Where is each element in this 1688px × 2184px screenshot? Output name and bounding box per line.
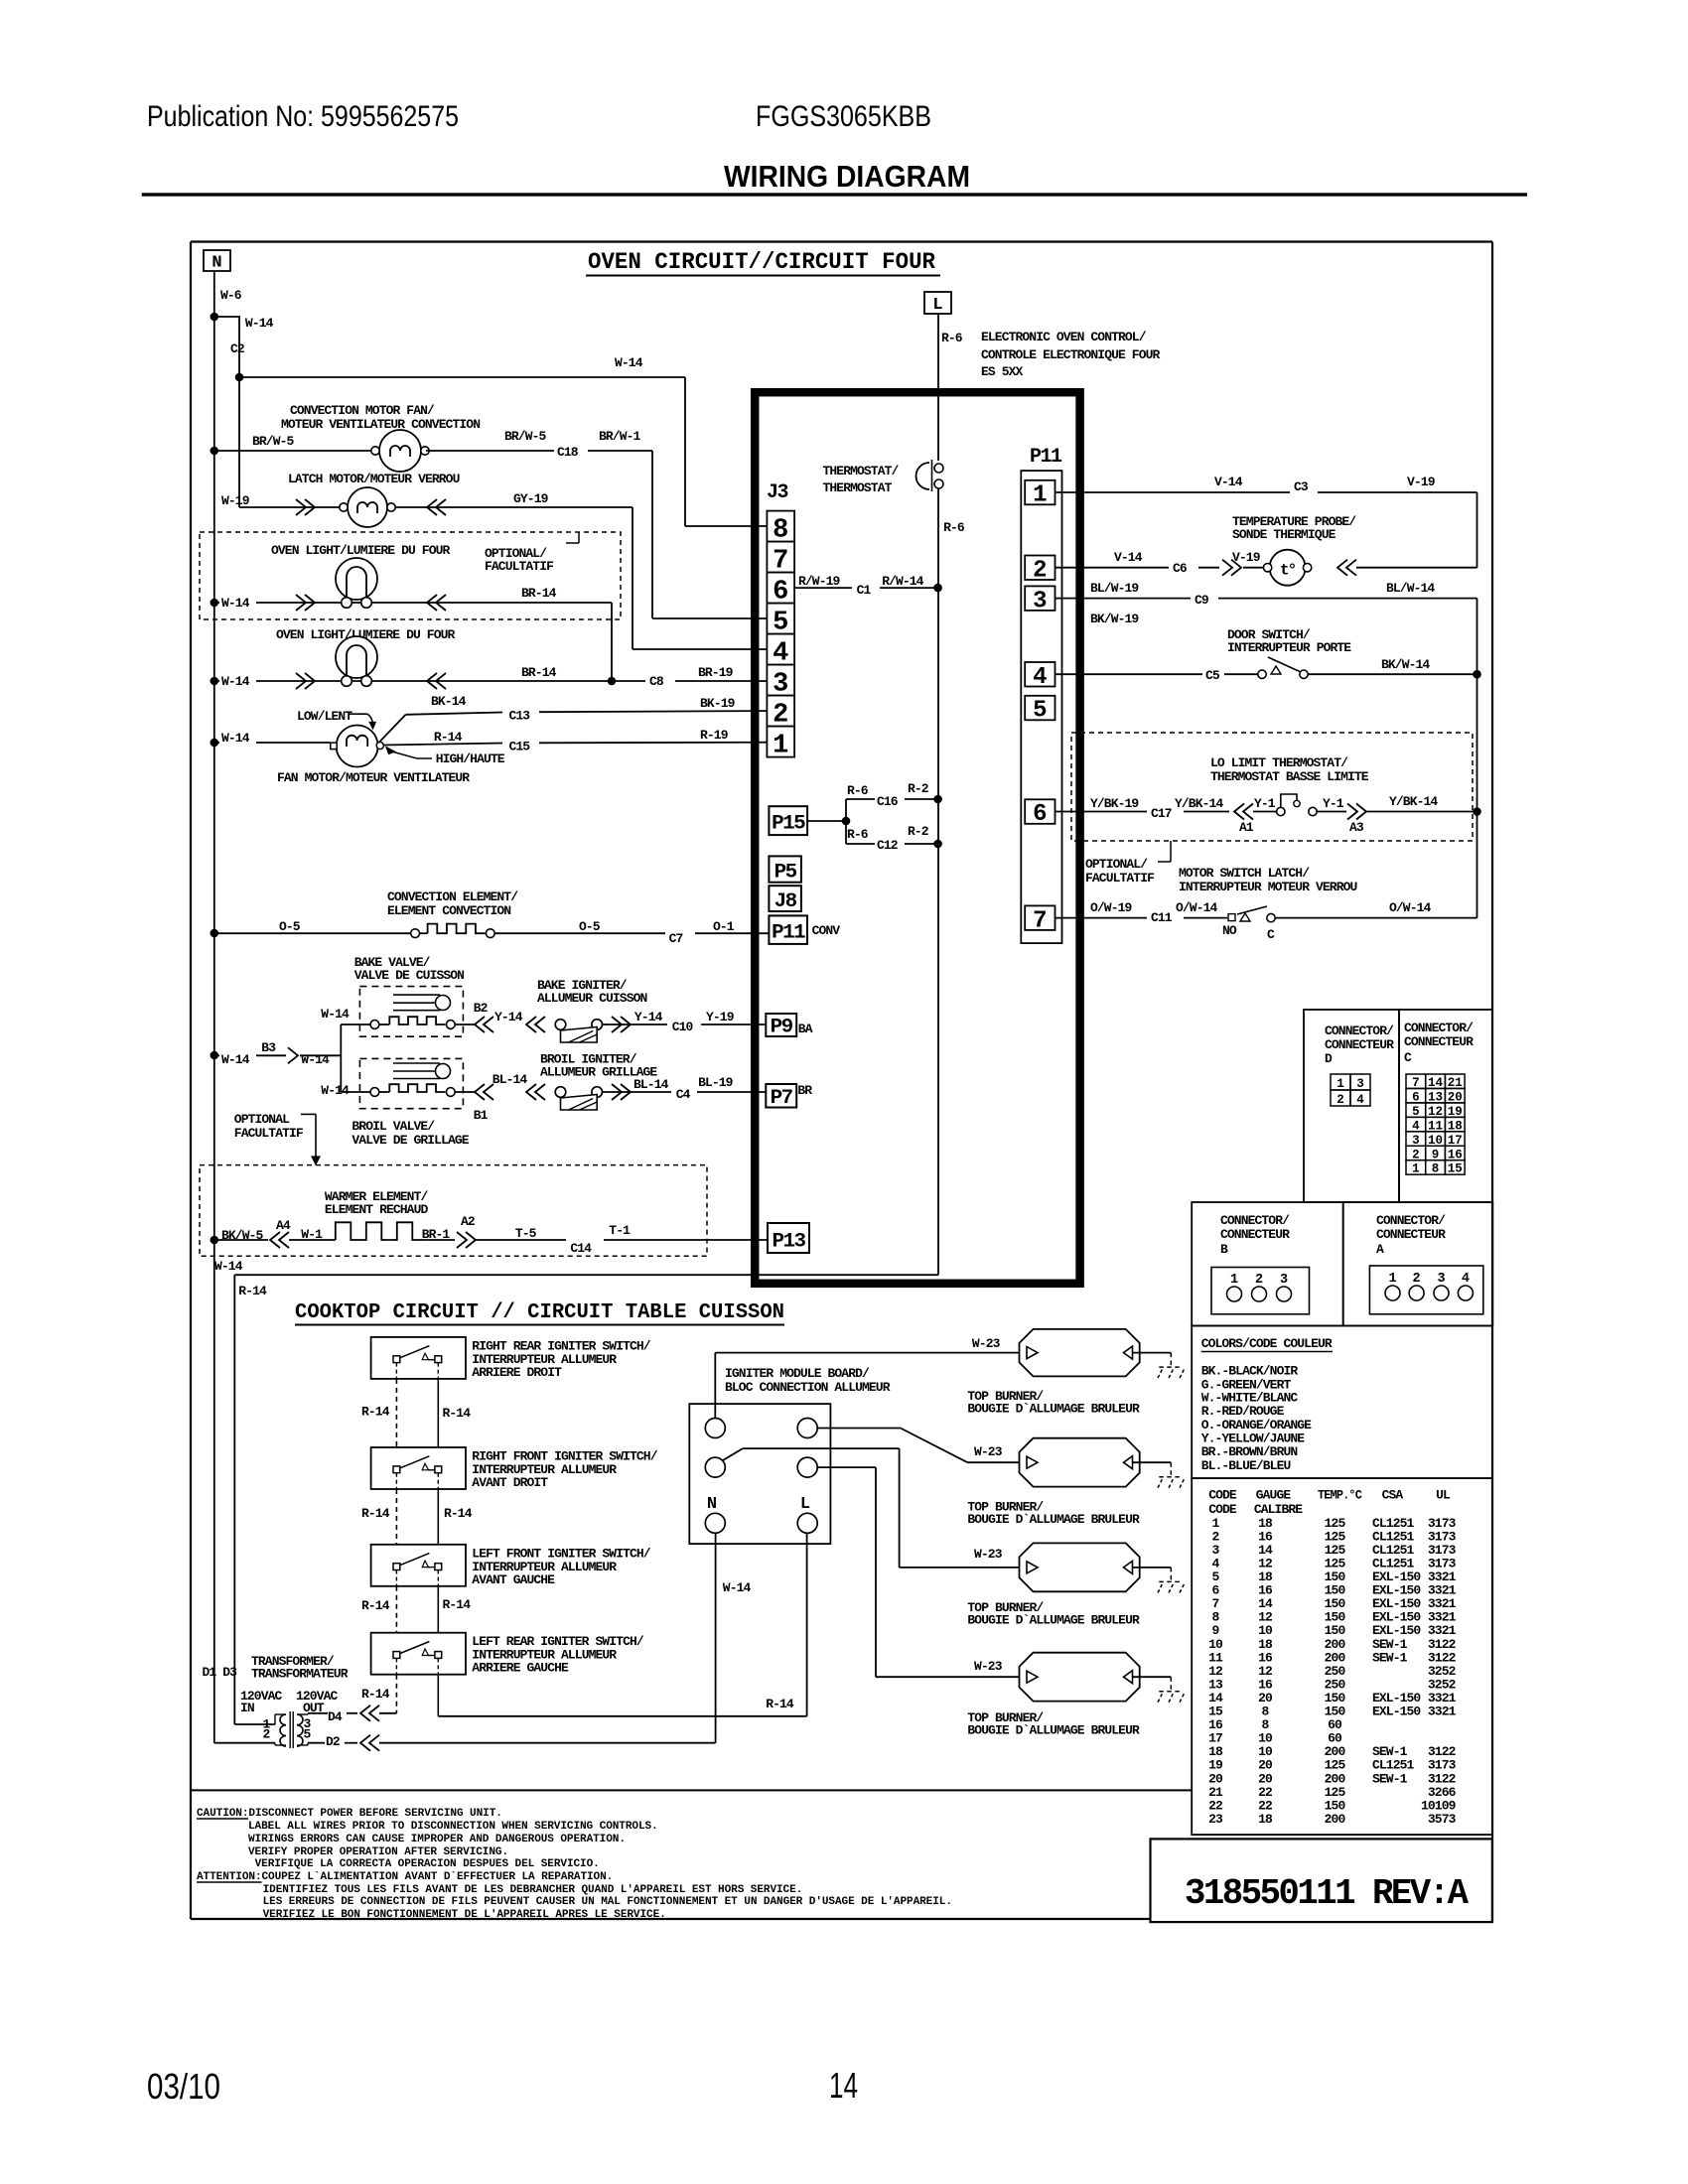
svg-text:C13: C13 [509, 709, 531, 724]
svg-text:ALLUMEUR GRILLAGE: ALLUMEUR GRILLAGE [540, 1065, 657, 1080]
svg-text:W-14: W-14 [321, 1083, 350, 1098]
svg-text:C10: C10 [672, 1020, 694, 1034]
svg-text:O-5: O-5 [579, 919, 601, 934]
svg-text:Y-19: Y-19 [706, 1010, 735, 1024]
svg-text:BK-14: BK-14 [431, 694, 467, 709]
svg-text:R-14: R-14 [361, 1687, 390, 1702]
svg-text:CONNECTOR/: CONNECTOR/ [1325, 1024, 1394, 1038]
svg-text:BA: BA [798, 1022, 813, 1036]
svg-text:W-1: W-1 [301, 1227, 323, 1242]
svg-text:2: 2 [1033, 557, 1047, 584]
svg-text:CODE: CODE [1208, 1488, 1237, 1503]
svg-text:LOW/LENT: LOW/LENT [297, 709, 352, 724]
svg-text:R/W-14: R/W-14 [882, 574, 923, 589]
svg-text:O-1: O-1 [713, 919, 735, 934]
svg-text:W-14: W-14 [221, 674, 250, 689]
svg-text:C2: C2 [230, 341, 245, 356]
svg-text:D1 D3: D1 D3 [203, 1665, 238, 1680]
svg-text:4: 4 [1033, 664, 1047, 691]
svg-text:15: 15 [1448, 1162, 1463, 1176]
svg-text:B1: B1 [474, 1108, 489, 1123]
svg-text:R-14: R-14 [361, 1598, 390, 1613]
svg-text:V-14: V-14 [1114, 550, 1143, 565]
svg-text:LABEL ALL WIRES PRIOR TO DISCO: LABEL ALL WIRES PRIOR TO DISCONNECTION W… [248, 1821, 658, 1833]
svg-text:3: 3 [1033, 588, 1047, 614]
svg-text:8: 8 [1432, 1162, 1440, 1176]
svg-text:C11: C11 [1151, 910, 1173, 925]
svg-text:CODE: CODE [1208, 1502, 1237, 1517]
svg-text:D2: D2 [326, 1734, 341, 1749]
svg-text:IN: IN [240, 1701, 254, 1715]
svg-text:Y/BK-14: Y/BK-14 [1389, 794, 1438, 809]
svg-text:C15: C15 [509, 740, 531, 754]
svg-text:14: 14 [829, 2065, 858, 2106]
svg-text:OPTIONAL/: OPTIONAL/ [1085, 857, 1148, 872]
svg-text:C17: C17 [1151, 806, 1172, 821]
svg-text:O/W-14: O/W-14 [1176, 900, 1217, 915]
svg-text:INTERRUPTEUR MOTEUR VERROU: INTERRUPTEUR MOTEUR VERROU [1179, 880, 1356, 894]
svg-text:BOUGIE D`ALLUMAGE BRULEUR: BOUGIE D`ALLUMAGE BRULEUR [967, 1613, 1140, 1628]
svg-text:ELEMENT RECHAUD: ELEMENT RECHAUD [325, 1202, 429, 1217]
svg-text:C8: C8 [649, 674, 664, 689]
svg-text:OPTIONAL: OPTIONAL [234, 1112, 290, 1127]
svg-text:B: B [1220, 1242, 1228, 1257]
svg-text:LO LIMIT THERMOSTAT/: LO LIMIT THERMOSTAT/ [1210, 755, 1348, 770]
svg-text:A: A [1376, 1242, 1384, 1257]
svg-text:BOUGIE D`ALLUMAGE BRULEUR: BOUGIE D`ALLUMAGE BRULEUR [967, 1512, 1140, 1527]
svg-text:ELECTRONIC OVEN CONTROL/: ELECTRONIC OVEN CONTROL/ [981, 330, 1147, 344]
svg-text:VERIFIQUE LA CORRECTA OPERACIO: VERIFIQUE LA CORRECTA OPERACION DESPUES … [255, 1858, 600, 1870]
svg-text:THERMOSTAT/: THERMOSTAT/ [823, 464, 900, 478]
svg-text:IDENTIFIEZ TOUS LES FILS AVANT: IDENTIFIEZ TOUS LES FILS AVANT DE LES DE… [263, 1884, 803, 1896]
svg-text:BR/W-5: BR/W-5 [252, 434, 294, 449]
svg-text:ARRIERE DROIT: ARRIERE DROIT [472, 1365, 562, 1380]
svg-text:R-6: R-6 [941, 331, 963, 345]
svg-text:P11: P11 [772, 922, 806, 945]
svg-text:1: 1 [1388, 1272, 1396, 1287]
svg-text:C7: C7 [669, 931, 683, 946]
svg-text:C4: C4 [676, 1087, 691, 1102]
svg-text:CONNECTEUR: CONNECTEUR [1325, 1037, 1394, 1052]
svg-text:LATCH MOTOR/MOTEUR VERROU: LATCH MOTOR/MOTEUR VERROU [288, 472, 460, 486]
svg-text:CONVECTION ELEMENT/: CONVECTION ELEMENT/ [387, 889, 518, 904]
svg-text:VERIFY PROPER OPERATION AFTER: VERIFY PROPER OPERATION AFTER SERVICING. [248, 1846, 508, 1858]
svg-text:W-23: W-23 [974, 1547, 1003, 1562]
svg-text:W-19: W-19 [221, 493, 250, 508]
svg-text:T-5: T-5 [515, 1226, 537, 1241]
svg-text:1: 1 [1033, 482, 1047, 509]
svg-text:MOTOR SWITCH LATCH/: MOTOR SWITCH LATCH/ [1179, 866, 1310, 881]
svg-text:18: 18 [1258, 1812, 1273, 1827]
svg-text:W-23: W-23 [974, 1659, 1003, 1674]
svg-text:N: N [211, 254, 221, 273]
svg-text:MOTEUR VENTILATEUR CONVECTION: MOTEUR VENTILATEUR CONVECTION [281, 417, 480, 432]
svg-text:A3: A3 [1349, 820, 1364, 835]
svg-text:NO: NO [1222, 923, 1237, 938]
svg-text:WIRINGS ERRORS CAN CAUSE IMPRO: WIRINGS ERRORS CAN CAUSE IMPROPER AND DA… [248, 1834, 626, 1845]
svg-text:B2: B2 [474, 1001, 489, 1016]
svg-text:BL.-BLUE/BLEU: BL.-BLUE/BLEU [1201, 1458, 1291, 1473]
svg-text:O/W-19: O/W-19 [1090, 900, 1132, 915]
svg-text:ARRIERE GAUCHE: ARRIERE GAUCHE [472, 1661, 569, 1676]
svg-text:C1: C1 [857, 583, 872, 598]
svg-text:SEW-1: SEW-1 [1372, 1650, 1408, 1665]
svg-text:R-6: R-6 [847, 827, 869, 842]
svg-text:Y/BK-19: Y/BK-19 [1090, 796, 1139, 811]
svg-text:CAUTION:DISCONNECT POWER BEFOR: CAUTION:DISCONNECT POWER BEFORE SERVICIN… [197, 1808, 502, 1820]
svg-text:COOKTOP CIRCUIT // CIRCUIT TAB: COOKTOP CIRCUIT // CIRCUIT TABLE CUISSON [295, 1301, 784, 1324]
svg-text:ATTENTION:COUPEZ L`ALIMENTATIO: ATTENTION:COUPEZ L`ALIMENTATION AVANT D`… [197, 1871, 613, 1883]
svg-text:ALLUMEUR CUISSON: ALLUMEUR CUISSON [537, 991, 646, 1006]
svg-text:EXL-150: EXL-150 [1372, 1705, 1421, 1719]
svg-text:ES 5XX: ES 5XX [981, 364, 1023, 379]
svg-text:TEMP.°C: TEMP.°C [1318, 1488, 1362, 1503]
svg-text:R-6: R-6 [847, 783, 869, 798]
svg-text:VALVE DE GRILLAGE: VALVE DE GRILLAGE [352, 1133, 469, 1148]
svg-text:C3: C3 [1294, 479, 1309, 494]
svg-text:BR-14: BR-14 [521, 665, 557, 680]
svg-text:UL: UL [1436, 1488, 1451, 1503]
svg-text:BL/W-14: BL/W-14 [1386, 581, 1435, 596]
svg-text:CSA: CSA [1382, 1488, 1404, 1503]
svg-text:C12: C12 [877, 838, 899, 853]
svg-text:V-19: V-19 [1407, 475, 1436, 489]
svg-text:BK/W-19: BK/W-19 [1090, 612, 1139, 626]
svg-text:3573: 3573 [1428, 1812, 1457, 1827]
svg-text:BR/W-1: BR/W-1 [599, 429, 640, 444]
svg-text:SEW-1: SEW-1 [1372, 1771, 1408, 1786]
svg-text:C: C [1404, 1050, 1412, 1065]
svg-text:1: 1 [773, 731, 788, 760]
svg-text:N: N [707, 1495, 717, 1514]
svg-text:IGNITER MODULE BOARD/: IGNITER MODULE BOARD/ [725, 1366, 870, 1381]
svg-text:t°: t° [1280, 562, 1296, 580]
svg-text:BR-14: BR-14 [521, 586, 557, 601]
svg-text:P7: P7 [771, 1087, 793, 1110]
svg-text:CONNECTOR/: CONNECTOR/ [1376, 1213, 1446, 1228]
svg-text:VERIFIEZ LE BON FONCTIONNEMENT: VERIFIEZ LE BON FONCTIONNEMENT DE L'APPA… [263, 1909, 666, 1921]
svg-text:O-5: O-5 [279, 919, 301, 934]
svg-text:COLORS/CODE COULEUR: COLORS/CODE COULEUR [1201, 1336, 1333, 1351]
svg-text:R-2: R-2 [908, 781, 929, 796]
svg-text:FACULTATIF: FACULTATIF [1085, 871, 1155, 886]
svg-text:P11: P11 [1030, 446, 1062, 469]
svg-text:Y-1: Y-1 [1254, 796, 1276, 811]
svg-text:R-14: R-14 [766, 1697, 794, 1711]
svg-text:1: 1 [1230, 1273, 1238, 1288]
svg-text:2: 2 [1255, 1273, 1263, 1288]
svg-text:CONNECTEUR: CONNECTEUR [1376, 1227, 1446, 1242]
svg-text:BL-19: BL-19 [698, 1075, 734, 1090]
svg-text:FACULTATIF: FACULTATIF [234, 1126, 304, 1141]
svg-text:R-14: R-14 [443, 1406, 472, 1421]
svg-text:BR/W-5: BR/W-5 [504, 429, 546, 444]
svg-text:2: 2 [263, 1727, 271, 1742]
svg-text:BR.-BROWN/BRUN: BR.-BROWN/BRUN [1201, 1444, 1298, 1459]
svg-text:318550111 REV:A: 318550111 REV:A [1185, 1873, 1469, 1914]
svg-text:R-19: R-19 [700, 728, 729, 743]
svg-text:W-14: W-14 [214, 1259, 243, 1274]
svg-text:P9: P9 [771, 1017, 793, 1039]
svg-text:W-23: W-23 [972, 1336, 1001, 1351]
svg-text:C6: C6 [1173, 561, 1188, 576]
svg-text:Y-14: Y-14 [634, 1010, 663, 1024]
svg-text:B3: B3 [261, 1040, 276, 1055]
svg-text:D4: D4 [328, 1709, 343, 1724]
svg-text:FGGS3065KBB: FGGS3065KBB [756, 100, 931, 133]
svg-text:R-14: R-14 [434, 730, 463, 745]
svg-text:1: 1 [1412, 1162, 1420, 1176]
svg-text:GY-19: GY-19 [513, 491, 549, 506]
svg-text:CONVECTION MOTOR FAN/: CONVECTION MOTOR FAN/ [290, 403, 435, 418]
svg-text:T-1: T-1 [609, 1223, 631, 1238]
svg-text:R-14: R-14 [361, 1506, 390, 1521]
svg-text:2: 2 [1336, 1093, 1344, 1107]
svg-text:BLOC CONNECTION ALLUMEUR: BLOC CONNECTION ALLUMEUR [725, 1380, 891, 1395]
svg-text:R-14: R-14 [361, 1405, 390, 1420]
svg-text:BK/W-14: BK/W-14 [1381, 657, 1430, 672]
svg-text:GAUGE: GAUGE [1256, 1488, 1292, 1503]
svg-text:BOUGIE D`ALLUMAGE BRULEUR: BOUGIE D`ALLUMAGE BRULEUR [967, 1723, 1140, 1738]
svg-text:Publication No: 5995562575: Publication No: 5995562575 [147, 100, 459, 133]
svg-text:C16: C16 [877, 794, 899, 809]
svg-text:CONNECTEUR: CONNECTEUR [1220, 1227, 1290, 1242]
svg-text:Y-14: Y-14 [494, 1010, 523, 1024]
svg-text:OVEN CIRCUIT//CIRCUIT FOUR: OVEN CIRCUIT//CIRCUIT FOUR [588, 249, 935, 275]
svg-text:CONNECTOR/: CONNECTOR/ [1220, 1213, 1290, 1228]
svg-text:BR: BR [797, 1083, 812, 1098]
svg-text:200: 200 [1325, 1812, 1346, 1827]
svg-text:BR-1: BR-1 [422, 1227, 451, 1242]
svg-text:Y/BK-14: Y/BK-14 [1175, 796, 1223, 811]
svg-text:4: 4 [1356, 1093, 1364, 1107]
svg-text:THERMOSTAT: THERMOSTAT [823, 480, 893, 495]
svg-text:W-23: W-23 [974, 1444, 1003, 1459]
svg-text:FAN MOTOR/MOTEUR VENTILATEUR: FAN MOTOR/MOTEUR VENTILATEUR [277, 770, 470, 785]
svg-text:BL/W-19: BL/W-19 [1090, 581, 1139, 596]
svg-text:C5: C5 [1205, 668, 1220, 683]
svg-text:BOUGIE D`ALLUMAGE BRULEUR: BOUGIE D`ALLUMAGE BRULEUR [967, 1402, 1140, 1417]
svg-text:2: 2 [1413, 1272, 1421, 1287]
svg-text:W-14: W-14 [221, 1052, 250, 1067]
svg-text:WIRING DIAGRAM: WIRING DIAGRAM [724, 159, 970, 194]
svg-text:W-14: W-14 [221, 731, 250, 746]
svg-text:SONDE THERMIQUE: SONDE THERMIQUE [1232, 527, 1336, 542]
svg-text:23: 23 [1208, 1812, 1223, 1827]
svg-text:3: 3 [1280, 1273, 1288, 1288]
svg-text:BK/W-5: BK/W-5 [221, 1228, 263, 1243]
svg-text:5: 5 [1033, 698, 1047, 725]
svg-text:A1: A1 [1239, 820, 1254, 835]
svg-text:W-14: W-14 [245, 316, 274, 331]
svg-text:R-6: R-6 [943, 520, 965, 535]
svg-text:Y-1: Y-1 [1323, 796, 1344, 811]
svg-text:HIGH/HAUTE: HIGH/HAUTE [436, 751, 505, 766]
svg-text:C18: C18 [557, 445, 579, 460]
svg-text:3: 3 [1356, 1077, 1364, 1091]
svg-text:V-19: V-19 [1232, 550, 1261, 565]
svg-text:VALVE DE CUISSON: VALVE DE CUISSON [354, 968, 464, 983]
svg-text:W-14: W-14 [723, 1580, 752, 1595]
svg-text:AVANT GAUCHE: AVANT GAUCHE [472, 1572, 555, 1587]
svg-text:BK.-BLACK/NOIR: BK.-BLACK/NOIR [1201, 1364, 1299, 1379]
svg-text:W-14: W-14 [615, 355, 643, 370]
svg-text:L: L [800, 1495, 810, 1514]
svg-text:R-14: R-14 [444, 1506, 473, 1521]
svg-text:P5: P5 [774, 862, 797, 885]
svg-text:3321: 3321 [1428, 1705, 1457, 1719]
svg-text:W-14: W-14 [221, 596, 250, 611]
svg-text:W-6: W-6 [220, 288, 242, 303]
svg-text:R-14: R-14 [238, 1284, 267, 1298]
svg-text:C14: C14 [570, 1241, 592, 1256]
svg-text:7: 7 [1033, 907, 1047, 934]
svg-text:W-14: W-14 [321, 1007, 350, 1022]
svg-text:LES ERREURS DE CONNECTION DE F: LES ERREURS DE CONNECTION DE FILS PEUVEN… [263, 1896, 952, 1908]
svg-text:L: L [932, 296, 942, 315]
svg-text:J8: J8 [774, 890, 797, 913]
svg-text:C9: C9 [1195, 593, 1209, 608]
svg-text:A4: A4 [276, 1218, 291, 1233]
svg-text:P15: P15 [772, 813, 805, 836]
svg-text:R/W-19: R/W-19 [798, 574, 840, 589]
svg-text:1: 1 [1336, 1077, 1344, 1091]
svg-text:INTERRUPTEUR PORTE: INTERRUPTEUR PORTE [1227, 640, 1351, 655]
svg-text:CONV: CONV [812, 923, 841, 938]
svg-text:A2: A2 [461, 1214, 476, 1229]
svg-text:FACULTATIF: FACULTATIF [485, 559, 554, 574]
svg-text:R-14: R-14 [443, 1597, 472, 1612]
svg-text:O/W-14: O/W-14 [1389, 900, 1431, 915]
svg-text:03/10: 03/10 [147, 2066, 220, 2107]
svg-text:P13: P13 [773, 1231, 806, 1254]
svg-text:OVEN LIGHT/LUMIERE DU FOUR: OVEN LIGHT/LUMIERE DU FOUR [271, 543, 450, 558]
svg-text:BROIL VALVE/: BROIL VALVE/ [352, 1119, 435, 1134]
svg-text:BK-19: BK-19 [700, 696, 736, 711]
svg-text:6: 6 [1033, 801, 1047, 828]
svg-text:3: 3 [1437, 1272, 1445, 1287]
svg-text:CONNECTOR/: CONNECTOR/ [1404, 1021, 1474, 1035]
svg-text:BL-14: BL-14 [492, 1072, 528, 1087]
svg-text:BR-19: BR-19 [698, 665, 734, 680]
svg-text:V-14: V-14 [1214, 475, 1243, 489]
svg-text:D: D [1325, 1051, 1333, 1066]
svg-text:AVANT DROIT: AVANT DROIT [472, 1475, 548, 1490]
svg-text:ELEMENT CONVECTION: ELEMENT CONVECTION [387, 903, 510, 918]
svg-text:5: 5 [304, 1727, 312, 1742]
svg-text:CONNECTEUR: CONNECTEUR [1404, 1034, 1474, 1049]
svg-text:R-2: R-2 [908, 824, 929, 839]
svg-text:CONTROLE ELECTRONIQUE FOUR: CONTROLE ELECTRONIQUE FOUR [981, 347, 1160, 362]
svg-text:C: C [1267, 927, 1275, 942]
svg-text:4: 4 [1462, 1272, 1470, 1287]
svg-text:THERMOSTAT BASSE LIMITE: THERMOSTAT BASSE LIMITE [1210, 769, 1369, 784]
svg-text:W-14: W-14 [301, 1052, 330, 1067]
svg-text:J3: J3 [767, 481, 788, 504]
svg-text:CALIBRE: CALIBRE [1254, 1502, 1303, 1517]
svg-text:TRANSFORMATEUR: TRANSFORMATEUR [251, 1667, 349, 1682]
